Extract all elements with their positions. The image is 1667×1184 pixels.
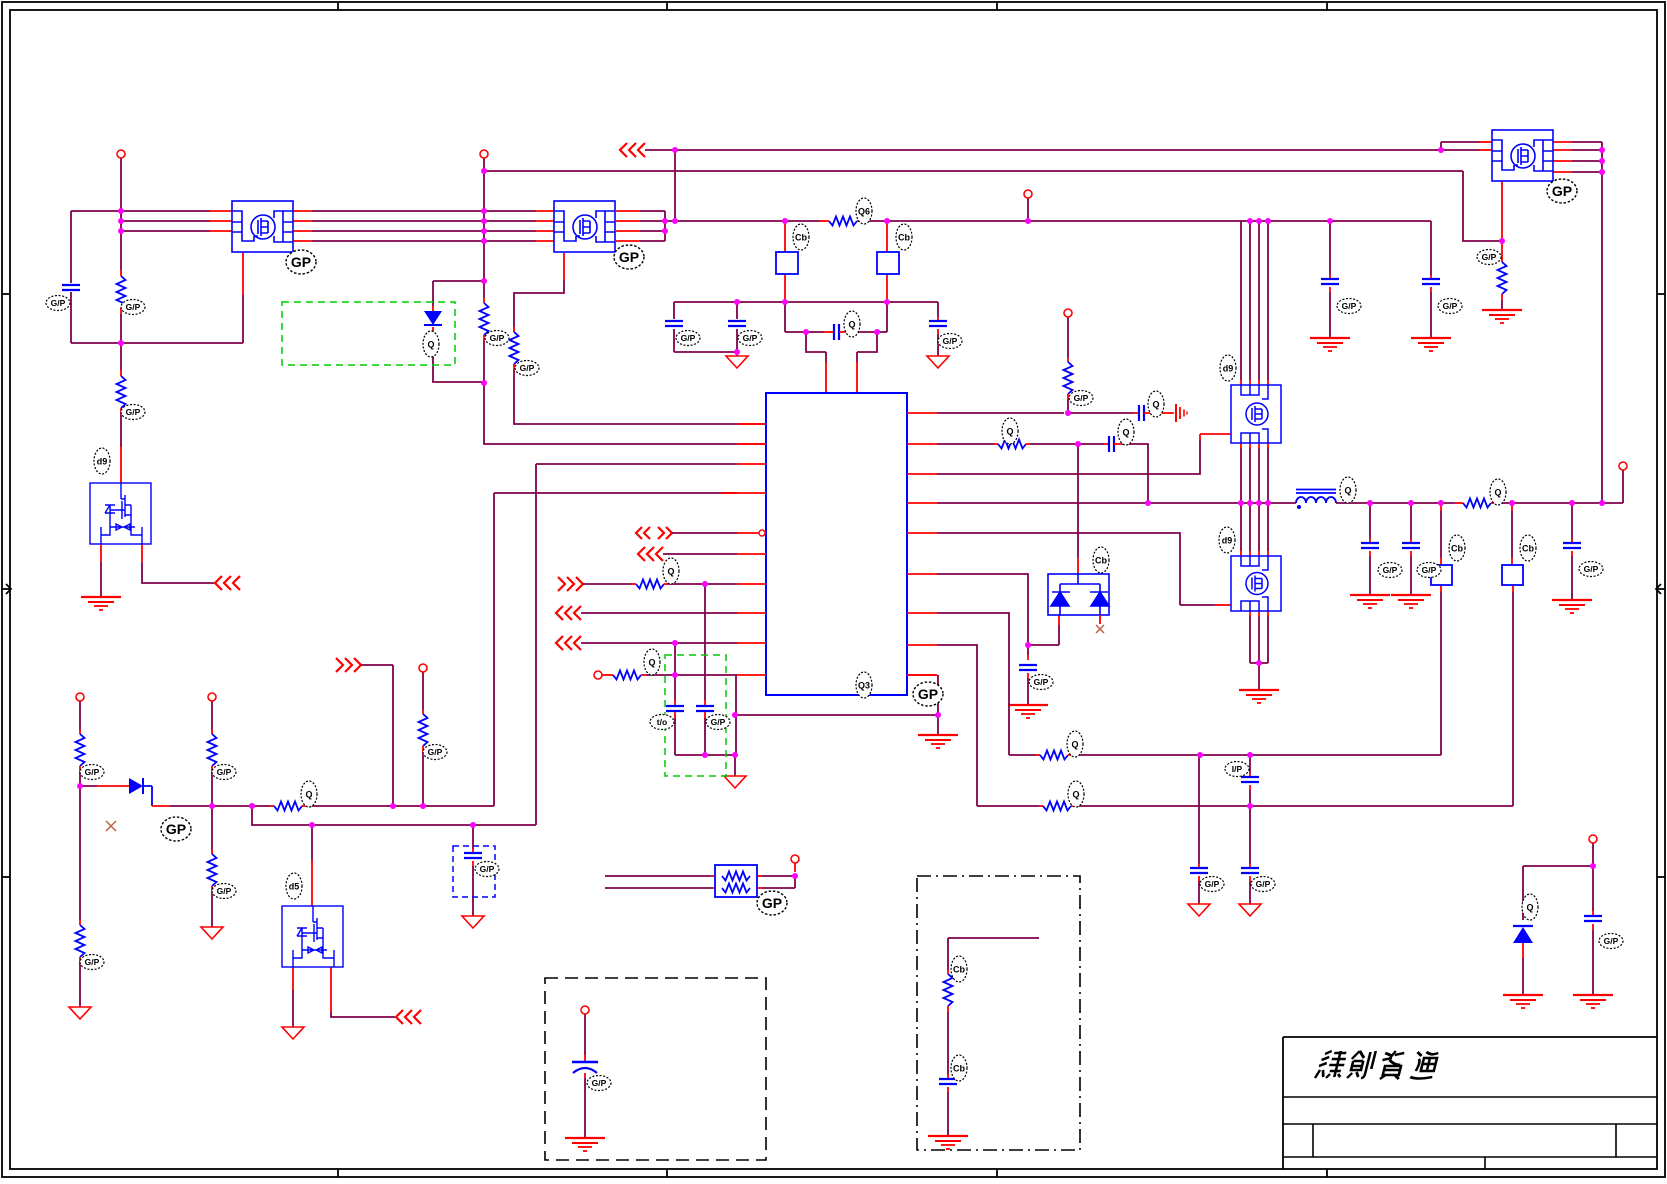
svg-text:G/P: G/P: [85, 767, 100, 777]
svg-text:GP: GP: [291, 254, 311, 270]
svg-text:t/o: t/o: [657, 717, 667, 727]
svg-text:G/P: G/P: [1604, 936, 1619, 946]
svg-text:G/P: G/P: [1205, 879, 1220, 889]
svg-text:G/P: G/P: [1584, 564, 1599, 574]
svg-text:Cb: Cb: [1451, 544, 1463, 554]
svg-text:G/P: G/P: [126, 407, 141, 417]
svg-text:G/P: G/P: [1256, 879, 1271, 889]
svg-text:Cb: Cb: [953, 965, 965, 975]
svg-text:G/P: G/P: [1422, 565, 1437, 575]
svg-text:G/P: G/P: [480, 864, 495, 874]
svg-text:Q: Q: [848, 320, 855, 330]
svg-text:G/P: G/P: [1034, 677, 1049, 687]
svg-text:G/P: G/P: [217, 767, 232, 777]
svg-text:G/P: G/P: [943, 336, 958, 346]
svg-text:G/P: G/P: [1443, 301, 1458, 311]
svg-text:Q: Q: [1071, 740, 1078, 750]
svg-text:Q: Q: [1526, 903, 1533, 913]
svg-text:Q: Q: [667, 567, 674, 577]
svg-text:G/P: G/P: [51, 298, 66, 308]
svg-text:Cb: Cb: [1522, 544, 1534, 554]
svg-text:GP: GP: [166, 821, 186, 837]
svg-text:Cb: Cb: [1095, 556, 1107, 566]
svg-text:G/P: G/P: [1383, 565, 1398, 575]
svg-text:Q: Q: [1152, 400, 1159, 410]
svg-text:Q: Q: [427, 340, 434, 350]
svg-text:G/P: G/P: [428, 747, 443, 757]
svg-text:Q: Q: [648, 658, 655, 668]
svg-text:d9: d9: [1222, 536, 1233, 546]
svg-text:Q: Q: [305, 790, 312, 800]
svg-text:Q6: Q6: [858, 207, 870, 217]
svg-text:Q3: Q3: [858, 681, 870, 691]
svg-text:G/P: G/P: [126, 302, 141, 312]
svg-text:Cb: Cb: [953, 1064, 965, 1074]
svg-text:d9: d9: [97, 457, 108, 467]
svg-text:GP: GP: [1552, 183, 1572, 199]
svg-text:Q: Q: [1494, 488, 1501, 498]
svg-text:G/P: G/P: [743, 333, 758, 343]
svg-text:Q: Q: [1006, 427, 1013, 437]
svg-text:G/P: G/P: [217, 886, 232, 896]
svg-text:Q: Q: [1122, 428, 1129, 438]
svg-text:Q: Q: [1344, 486, 1351, 496]
svg-text:GP: GP: [918, 686, 938, 702]
svg-text:G/P: G/P: [681, 333, 696, 343]
svg-text:d5: d5: [289, 882, 300, 892]
svg-text:G/P: G/P: [1074, 393, 1089, 403]
svg-text:G/P: G/P: [520, 363, 535, 373]
svg-text:I/P: I/P: [1232, 764, 1243, 774]
svg-text:Q: Q: [1072, 790, 1079, 800]
svg-text:Cb: Cb: [898, 233, 910, 243]
svg-text:G/P: G/P: [1482, 252, 1497, 262]
svg-text:G/P: G/P: [1342, 301, 1357, 311]
svg-text:d9: d9: [1223, 364, 1234, 374]
svg-text:G/P: G/P: [592, 1078, 607, 1088]
svg-text:GP: GP: [762, 895, 782, 911]
svg-text:G/P: G/P: [490, 333, 505, 343]
svg-text:G/P: G/P: [85, 957, 100, 967]
svg-text:G/P: G/P: [711, 717, 726, 727]
svg-text:Cb: Cb: [795, 233, 807, 243]
svg-text:GP: GP: [619, 249, 639, 265]
